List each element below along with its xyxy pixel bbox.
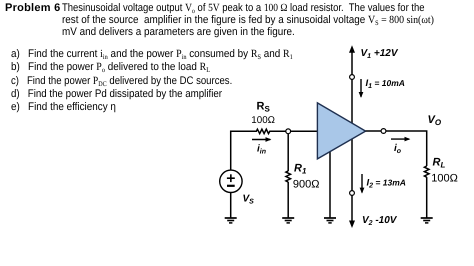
current arrow i_o: [391, 138, 409, 140]
wire: RL to ground: [426, 177, 428, 217]
svg-text:VO: VO: [428, 114, 442, 127]
svg-text:RS: RS: [257, 101, 271, 114]
node on rail bottom (pin V-): [350, 191, 355, 196]
label VS: [243, 194, 255, 206]
svg-text:VS: VS: [243, 194, 255, 206]
svg-text:V2 -10V: V2 -10V: [362, 215, 398, 227]
item a: [11, 48, 293, 60]
wire: R1 branch down: [287, 131, 289, 171]
node input: [286, 129, 291, 134]
svg-text:io: io: [394, 143, 402, 155]
current arrow I1: [360, 79, 362, 97]
label V2 -10V: [362, 215, 398, 227]
current arrow I2: [361, 174, 363, 193]
label RL: [433, 157, 446, 170]
item b: [11, 61, 210, 73]
paragraph line 1: [62, 2, 425, 14]
label R1: [294, 163, 307, 176]
svg-text:I2 = 13mA: I2 = 13mA: [367, 178, 406, 190]
label i_in: [257, 144, 266, 156]
svg-text:V1 +12V: V1 +12V: [361, 48, 399, 60]
label I1 = 10mA: [366, 78, 405, 90]
label RL value 100 ohm: [431, 172, 458, 184]
label I2 = 13mA: [367, 178, 406, 190]
paragraph line 2: [62, 14, 434, 26]
svg-text:I1 = 10mA: I1 = 10mA: [366, 78, 405, 90]
wire: node to triangle input: [288, 130, 318, 132]
label Vo: [428, 114, 442, 127]
resistor RS (zigzag): [254, 129, 288, 133]
svg-text:iin: iin: [257, 144, 266, 156]
resistor RL (zigzag vertical): [424, 166, 429, 177]
item d: [11, 88, 222, 100]
label V1 +12V: [361, 48, 399, 60]
wire: input horizontal from Vs corner to amplifier: [231, 131, 254, 170]
wire: output apex to corner: [366, 131, 427, 166]
item c: [11, 75, 232, 87]
node output: [381, 129, 386, 134]
label R1 value 900 ohm: [293, 178, 320, 190]
ground under amplifier: [324, 218, 336, 223]
svg-text:900Ω: 900Ω: [293, 178, 320, 190]
svg-text:100Ω: 100Ω: [251, 115, 275, 126]
ground under VS: [225, 218, 237, 223]
node on rail top (pin V+): [350, 75, 355, 80]
power rail V1/V2 vertical wire: [349, 45, 355, 228]
op-amp U1 triangle: [317, 103, 365, 159]
source VS circle: [220, 170, 242, 192]
ground under R1: [282, 218, 294, 223]
svg-text:R1: R1: [294, 163, 307, 176]
paragraph line 3: [62, 26, 295, 38]
item e: [11, 101, 116, 113]
label io: [394, 143, 402, 155]
ground under RL: [421, 218, 433, 223]
svg-text:RL: RL: [433, 157, 446, 170]
svg-text:100Ω: 100Ω: [431, 172, 458, 184]
wire: R1 to ground: [287, 182, 289, 218]
problem heading: [5, 2, 60, 14]
current arrow i_in: [252, 139, 270, 141]
wire: VS to ground: [230, 192, 232, 217]
label RS value 100 ohm: [251, 115, 275, 126]
wire: amplifier bottom to ground: [329, 152, 331, 218]
label RS: [257, 101, 271, 114]
resistor R1 (zigzag vertical): [286, 171, 291, 182]
